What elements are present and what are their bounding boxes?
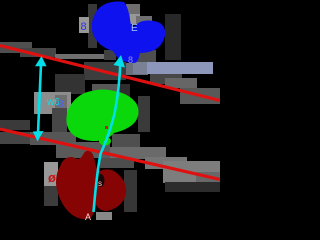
slate bar lead — [133, 62, 147, 74]
artifact patch upper-line-right — [150, 74, 220, 104]
cyan double arrow shaft — [38, 64, 41, 133]
svg-text:8: 8 — [58, 99, 64, 110]
svg-text:8: 8 — [81, 21, 87, 33]
cyan double arrow head bottom — [33, 131, 44, 142]
blue blob — [92, 2, 165, 63]
cyan long arrow shaft — [94, 60, 121, 212]
svg-text:s: s — [98, 179, 102, 188]
artifact patch upper-line-left — [0, 42, 56, 57]
artifact patch around maroon — [44, 158, 137, 220]
artifact patch lower-line-left — [0, 120, 76, 145]
svg-text:ø: ø — [48, 170, 56, 185]
slate bar — [147, 62, 213, 74]
artifact patch lower-line-right — [110, 147, 220, 192]
cyan long arrow head — [114, 55, 126, 68]
artifact patch upper-line-mid — [55, 54, 126, 94]
svg-text:8: 8 — [128, 55, 133, 65]
artifact patch below green — [56, 142, 110, 158]
svg-text:E: E — [131, 23, 138, 34]
maroon blob — [56, 151, 126, 219]
green blob — [66, 90, 138, 142]
artifact patch cyan-label — [34, 92, 71, 114]
artifact patch bar-leadin — [110, 63, 148, 108]
red speck on green — [105, 126, 108, 129]
red line upper — [0, 46, 220, 101]
svg-text:A: A — [85, 212, 91, 220]
artifact patch around green blob — [52, 84, 150, 150]
green bump — [99, 137, 111, 146]
cyan double arrow head top — [35, 56, 47, 66]
maroon pocket (dark notch with s label) — [97, 174, 105, 187]
red line lower — [0, 129, 220, 180]
artifact patch around blue blob — [79, 4, 181, 63]
